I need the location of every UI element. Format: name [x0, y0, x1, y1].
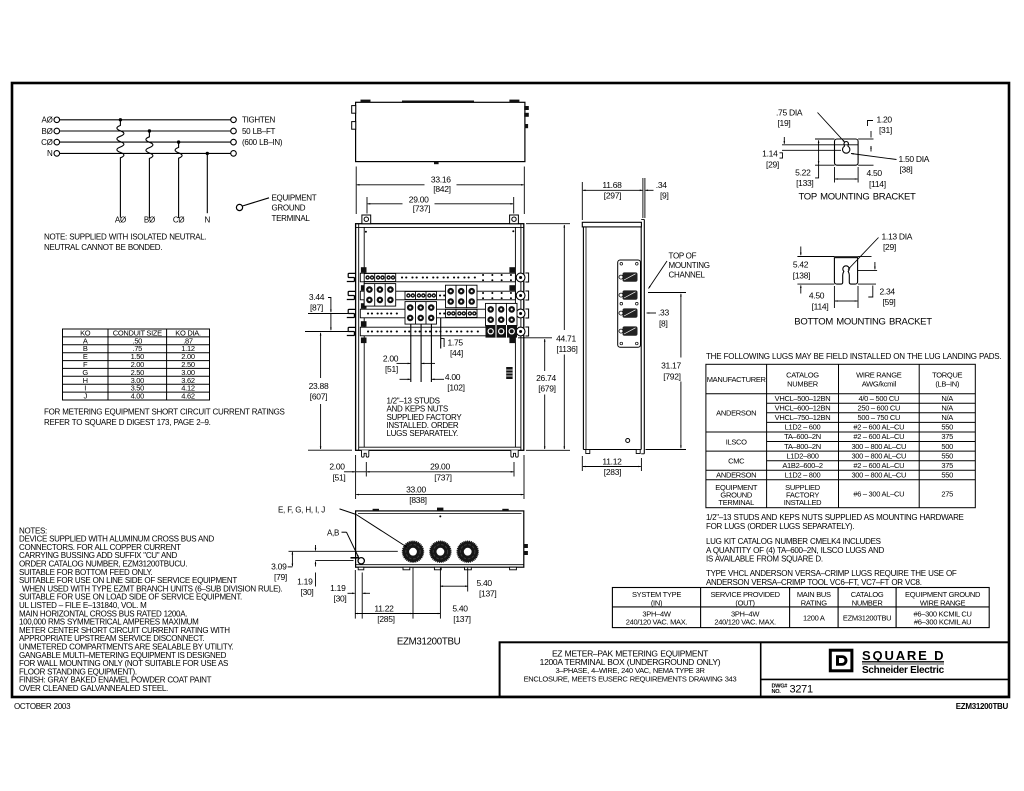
bus end bolts right	[509, 267, 515, 273]
svg-text:4/0 – 500 CU: 4/0 – 500 CU	[858, 394, 899, 403]
svg-text:AØ: AØ	[115, 216, 126, 225]
svg-text:Schneider Electric: Schneider Electric	[862, 665, 945, 676]
svg-text:IS AVAILABLE FROM SQUARE D: IS AVAILABLE FROM SQUARE D.	[706, 554, 823, 563]
lug group B	[405, 302, 437, 325]
dim .34	[645, 189, 653, 191]
lug group right	[486, 303, 518, 326]
lug table	[706, 364, 975, 507]
svg-text:LUG KIT CATALOG NUMBER CME: LUG KIT CATALOG NUMBER CMELK4 INCLUDES	[706, 537, 881, 546]
screw dots	[365, 231, 367, 233]
svg-text:1.19: 1.19	[330, 583, 346, 593]
lug group mid	[446, 285, 478, 308]
svg-text:2.34: 2.34	[880, 287, 896, 297]
svg-text:.75 DIA: .75 DIA	[776, 108, 803, 118]
svg-text:CATALOG: CATALOG	[786, 370, 819, 379]
left foot	[362, 450, 369, 457]
dim 11.12 extensions	[581, 456, 583, 471]
svg-text:WIRE RANGE: WIRE RANGE	[856, 370, 902, 379]
svg-text:N/A: N/A	[941, 413, 953, 422]
terminal circle N right	[231, 151, 237, 157]
top view right clips	[524, 106, 529, 110]
dim 5.42	[800, 247, 802, 256]
terminal circle C right	[231, 139, 237, 145]
bottom dim extension lines	[355, 455, 357, 499]
lug strip mid	[446, 309, 478, 317]
wall clips left	[347, 273, 356, 281]
svg-text:[133]: [133]	[796, 178, 813, 188]
svg-text:ENCLOSURE, MEETS EUSERC REQ: ENCLOSURE, MEETS EUSERC REQUIREMENTS DRA…	[524, 674, 737, 683]
dim 29.00 top	[368, 203, 403, 205]
svg-text:2.00: 2.00	[329, 462, 345, 472]
svg-text:550: 550	[941, 451, 953, 460]
svg-text:BØ: BØ	[42, 127, 53, 136]
title block	[500, 642, 1009, 696]
equipment ground terminal circle	[236, 204, 242, 210]
svg-text:MANUFACTURER: MANUFACTURER	[707, 375, 767, 384]
bus row C	[360, 309, 515, 318]
svg-text:[607]: [607]	[310, 392, 327, 402]
neutral dark lug strip	[486, 325, 518, 338]
svg-text:(600 LB–IN): (600 LB–IN)	[242, 138, 283, 147]
dim 23.88 left	[320, 333, 322, 378]
svg-text:WIRE RANGE: WIRE RANGE	[920, 598, 966, 607]
svg-text:4.50: 4.50	[867, 168, 883, 178]
svg-text:[79]: [79]	[274, 572, 287, 582]
svg-text:[19]: [19]	[778, 118, 791, 128]
top view left bracket tab	[361, 100, 371, 103]
dim 1.19 second	[348, 592, 355, 594]
svg-text:BØ: BØ	[144, 216, 155, 225]
svg-text:[38]: [38]	[900, 164, 913, 174]
svg-text:[838]: [838]	[409, 495, 426, 505]
svg-text:3271: 3271	[790, 684, 813, 696]
bottom view center tab	[437, 508, 443, 511]
svg-text:[792]: [792]	[663, 371, 680, 381]
dim 5.40 upper	[440, 585, 467, 587]
svg-text:300 – 800 AL–CU: 300 – 800 AL–CU	[851, 451, 906, 460]
svg-text:J: J	[83, 392, 87, 401]
bus row A	[360, 273, 515, 282]
svg-text:EZM31200TBU: EZM31200TBU	[956, 702, 1009, 711]
svg-text:11.12: 11.12	[602, 456, 622, 466]
svg-text:INSTALLED: INSTALLED	[784, 498, 822, 507]
lug table header	[707, 370, 963, 388]
svg-text:[31]: [31]	[879, 125, 892, 135]
svg-text:5.22: 5.22	[795, 167, 811, 177]
svg-text:#2 – 600 AL–CU: #2 – 600 AL–CU	[853, 432, 904, 441]
svg-text:550: 550	[941, 471, 953, 480]
svg-text:TA–600–2N: TA–600–2N	[784, 432, 821, 441]
svg-text:550: 550	[941, 423, 953, 432]
wire phase B	[60, 130, 231, 132]
svg-text:[297]: [297]	[604, 190, 621, 200]
svg-text:[8]: [8]	[659, 318, 668, 328]
svg-text:NEUTRAL CANNOT BE BONDED.: NEUTRAL CANNOT BE BONDED.	[44, 243, 162, 252]
svg-text:L1D2 – 800: L1D2 – 800	[785, 471, 821, 480]
svg-text:1.20: 1.20	[877, 115, 893, 125]
svg-text:50 LB–FT: 50 LB–FT	[242, 127, 276, 136]
bus end bolts left	[361, 267, 367, 273]
dim 1.14	[783, 137, 785, 144]
label 1.50 DIA	[851, 154, 897, 160]
dim 2.00 studs	[397, 362, 411, 364]
mounting channel plate	[618, 260, 641, 347]
svg-text:500 – 750 CU: 500 – 750 CU	[857, 413, 900, 422]
svg-text:SQUARE D: SQUARE D	[862, 648, 944, 663]
svg-text:VHCL–500–12BN: VHCL–500–12BN	[775, 394, 831, 403]
svg-text:2.00: 2.00	[383, 353, 399, 363]
dim 29.00 bottom	[367, 471, 404, 473]
bottom bracket reference lines	[797, 256, 834, 258]
svg-text:N/A: N/A	[941, 394, 953, 403]
side feet	[586, 450, 590, 454]
svg-text:#6 – 300 AL–CU: #6 – 300 AL–CU	[853, 490, 904, 499]
top plan view of terminal box	[356, 102, 525, 161]
knockout E-J 2	[430, 541, 451, 562]
riser phase C	[175, 142, 182, 218]
svg-text:33.16: 33.16	[431, 174, 451, 184]
lug strip row A	[364, 274, 396, 282]
svg-text:REFER TO SQUARE D DIGEST: REFER TO SQUARE D DIGEST 173, PAGE 2–9.	[44, 418, 211, 427]
riser phase B	[146, 131, 153, 218]
svg-text:TOP MOUNTING BRACKET: TOP MOUNTING BRACKET	[798, 192, 916, 203]
svg-text:TERMINAL: TERMINAL	[718, 498, 754, 507]
svg-text:44.71: 44.71	[556, 333, 576, 343]
svg-text:1.75: 1.75	[448, 337, 464, 347]
svg-text:TOP OF: TOP OF	[669, 251, 697, 260]
svg-text:[737]: [737]	[413, 204, 430, 214]
lug notes	[706, 513, 964, 587]
svg-text:[102]: [102]	[447, 383, 464, 393]
svg-text:AØ: AØ	[42, 116, 53, 125]
svg-text:(LB–IN): (LB–IN)	[935, 379, 960, 388]
svg-text:300 – 800 AL–CU: 300 – 800 AL–CU	[851, 471, 906, 480]
lug strip row B	[405, 292, 437, 300]
svg-text:TYPE VHCL ANDERSON VERSA–CR: TYPE VHCL ANDERSON VERSA–CRIMP LUGS REQU…	[706, 569, 957, 578]
dim 1.75 bracket	[441, 339, 444, 347]
junction dot A	[119, 118, 122, 121]
svg-text:375: 375	[941, 432, 953, 441]
junction dot B	[148, 129, 151, 132]
front left mounting tab	[362, 215, 371, 224]
svg-text:4.50: 4.50	[809, 291, 825, 301]
dim 2.34	[874, 262, 876, 269]
interior label mark	[506, 367, 512, 379]
front right mounting tab	[510, 215, 519, 224]
dim 26.74 right	[518, 337, 552, 339]
svg-text:GROUND: GROUND	[272, 204, 306, 213]
top mounting bracket detail	[835, 139, 859, 165]
svg-text:LUGS SEPARATELY.: LUGS SEPARATELY.	[387, 429, 459, 438]
svg-text:240/120 VAC. MAX.: 240/120 VAC. MAX.	[626, 618, 688, 627]
svg-text:11.68: 11.68	[602, 180, 622, 190]
svg-text:ANDERSON: ANDERSON	[716, 409, 756, 418]
svg-text:1.14: 1.14	[762, 149, 778, 159]
svg-text:[137]: [137]	[479, 588, 496, 598]
dim 1.19 first	[315, 545, 317, 551]
phase schematic top-left	[54, 117, 236, 218]
top view bottom tick	[434, 162, 439, 165]
studs note	[387, 396, 463, 438]
svg-text:TA–800–2N: TA–800–2N	[784, 442, 821, 451]
svg-text:26.74: 26.74	[536, 373, 556, 383]
svg-text:1/2"–13 STUDS AND KEPS NUT: 1/2"–13 STUDS AND KEPS NUTS SUPPLIED AS …	[706, 513, 964, 522]
svg-text:(IN): (IN)	[651, 598, 663, 607]
riser phase A	[117, 120, 124, 218]
dim 1.20	[868, 121, 874, 127]
svg-text:VHCL–600–12BN: VHCL–600–12BN	[775, 404, 831, 413]
svg-text:[842]: [842]	[433, 184, 450, 194]
svg-text:[285]: [285]	[377, 614, 394, 624]
svg-text:31.17: 31.17	[661, 361, 681, 371]
svg-text:FOR LUGS (ORDER LUGS SEPAR: FOR LUGS (ORDER LUGS SEPARATELY).	[706, 522, 854, 531]
dim 11.22	[355, 613, 413, 615]
A,B tick	[351, 557, 360, 559]
svg-text:NOTE: SUPPLIED WITH ISOLATE: NOTE: SUPPLIED WITH ISOLATED NEUTRAL.	[44, 232, 206, 241]
dim 5.40 lower	[413, 613, 440, 615]
svg-text:5.42: 5.42	[793, 260, 809, 270]
svg-text:375: 375	[941, 461, 953, 470]
dim 31.17	[648, 292, 686, 294]
channel lug B	[619, 290, 638, 299]
terminal circle A left	[54, 117, 60, 123]
bottom bracket top plate	[834, 256, 858, 258]
svg-text:240/120 VAC. MAX.: 240/120 VAC. MAX.	[714, 618, 776, 627]
svg-text:#6–300 KCMIL AU: #6–300 KCMIL AU	[914, 618, 971, 627]
bottom mounting bracket detail	[834, 257, 857, 284]
svg-text:TERMINAL: TERMINAL	[272, 214, 311, 223]
Square D logo mark	[830, 650, 852, 671]
dim 3.09	[291, 552, 293, 566]
svg-text:L1D2 – 600: L1D2 – 600	[785, 423, 821, 432]
svg-text:[51]: [51]	[333, 472, 346, 482]
terminal circle A right	[231, 117, 237, 123]
svg-text:NO.: NO.	[772, 689, 782, 695]
svg-text:3.44: 3.44	[309, 292, 325, 302]
svg-text:[44]: [44]	[450, 348, 463, 358]
stud lines	[410, 324, 412, 382]
svg-text:BOTTOM MOUNTING BRACKET: BOTTOM MOUNTING BRACKET	[794, 317, 932, 328]
dim 4.00 studs	[400, 378, 411, 380]
dim .33	[647, 312, 656, 314]
svg-text:[29]: [29]	[883, 242, 896, 252]
svg-text:RATING: RATING	[801, 598, 827, 607]
side lug circles right	[516, 273, 525, 336]
bottom view top tabs	[373, 509, 379, 511]
svg-text:THE FOLLOWING LUGS MAY BE: THE FOLLOWING LUGS MAY BE FIELD INSTALLE…	[706, 352, 1001, 361]
terminal circle B right	[231, 128, 237, 134]
riser neutral	[206, 153, 208, 213]
svg-text:29.00: 29.00	[430, 462, 450, 472]
right foot	[511, 450, 518, 457]
svg-text:CHANNEL: CHANNEL	[669, 271, 706, 280]
dim 11.68 extensions	[581, 182, 583, 220]
svg-text:AWG/kcmil: AWG/kcmil	[862, 379, 897, 388]
terminal circle B left	[54, 128, 60, 134]
svg-text:11.22: 11.22	[374, 603, 394, 613]
AB center extension line	[315, 560, 353, 562]
svg-text:[30]: [30]	[334, 594, 347, 604]
svg-text:5.40: 5.40	[452, 603, 468, 613]
svg-text:[138]: [138]	[793, 270, 810, 280]
svg-text:TORQUE: TORQUE	[932, 370, 962, 379]
svg-text:.33: .33	[658, 308, 669, 318]
svg-text:23.88: 23.88	[309, 381, 329, 391]
svg-text:L1D2–800: L1D2–800	[786, 451, 818, 460]
svg-text:1.50 DIA: 1.50 DIA	[899, 154, 930, 164]
lug group A	[364, 284, 396, 307]
dim 2.00 bottom left	[344, 471, 355, 473]
svg-text:[29]: [29]	[766, 159, 779, 169]
dim 11.12	[583, 466, 641, 468]
center dot	[439, 515, 441, 517]
svg-text:[114]: [114]	[812, 301, 829, 311]
junction dot N	[206, 152, 209, 155]
side screw dot	[626, 439, 630, 443]
bottom extension lines	[354, 570, 356, 619]
svg-text:VHCL–750–12BN: VHCL–750–12BN	[775, 413, 831, 422]
svg-text:5.40: 5.40	[477, 578, 493, 588]
svg-text:3.09: 3.09	[271, 562, 287, 572]
svg-text:[51]: [51]	[385, 364, 398, 374]
svg-text:[114]: [114]	[869, 179, 886, 189]
svg-text:500: 500	[941, 442, 953, 451]
dim 44.71 right	[526, 223, 570, 225]
KO center extension line	[289, 550, 398, 552]
dim 11.68	[583, 189, 643, 191]
svg-text:E, F, G, H, I, J: E, F, G, H, I, J	[278, 506, 325, 515]
knockout E-J 1	[403, 541, 424, 562]
channel lug C	[619, 308, 638, 317]
svg-text:1.19: 1.19	[297, 577, 313, 587]
svg-text:OVER CLEANED GALVANNEALED S: OVER CLEANED GALVANNEALED STEEL.	[19, 684, 168, 693]
svg-text:[679]: [679]	[538, 384, 555, 394]
svg-text:[30]: [30]	[301, 587, 314, 597]
top bracket reference lines	[815, 138, 835, 140]
dim 33.00 bottom	[356, 494, 404, 496]
svg-text:[59]: [59]	[883, 297, 896, 307]
svg-text:NUMBER: NUMBER	[787, 379, 819, 388]
lug table body	[715, 394, 953, 507]
svg-text:ILSCO: ILSCO	[726, 437, 747, 446]
bus row N	[360, 327, 515, 336]
dim 5.22	[818, 140, 820, 164]
page border	[12, 83, 1009, 697]
svg-text:A,B: A,B	[327, 529, 339, 538]
top view right bracket tab	[509, 100, 519, 103]
svg-text:.34: .34	[656, 180, 667, 190]
svg-text:EZM31200TBU: EZM31200TBU	[843, 614, 891, 623]
svg-text:CØ: CØ	[173, 216, 184, 225]
dim 33.16 extension lines	[355, 167, 357, 215]
svg-text:CMC: CMC	[728, 456, 745, 465]
svg-text:N/A: N/A	[941, 404, 953, 413]
svg-text:4.62: 4.62	[181, 392, 195, 401]
svg-text:1200 A: 1200 A	[803, 614, 825, 623]
svg-text:EQUIPMENT: EQUIPMENT	[272, 193, 317, 202]
knockout size table	[63, 329, 210, 400]
dim 4.50 bottom bracket	[833, 286, 835, 308]
svg-text:#2 – 600 AL–CU: #2 – 600 AL–CU	[853, 423, 904, 432]
svg-text:4.00: 4.00	[445, 372, 461, 382]
svg-text:ANDERSON: ANDERSON	[716, 471, 756, 480]
svg-text:33.00: 33.00	[406, 484, 426, 494]
terminal circle N left	[54, 151, 60, 157]
channel lug A	[619, 272, 638, 281]
side elevation enclosure	[582, 220, 644, 454]
knockout E-J 3	[457, 541, 478, 562]
equipment ground terminal leader	[243, 198, 270, 206]
svg-text:1.13 DIA: 1.13 DIA	[882, 232, 913, 242]
svg-text:4.00: 4.00	[131, 392, 145, 401]
svg-text:N: N	[205, 216, 211, 225]
svg-text:NUMBER: NUMBER	[852, 598, 884, 607]
top view mounting channel strip	[402, 101, 474, 103]
svg-text:(OUT): (OUT)	[735, 598, 755, 607]
svg-text:CØ: CØ	[41, 138, 52, 147]
svg-text:A1B2–600–2: A1B2–600–2	[782, 461, 823, 470]
knockout A,B	[358, 558, 364, 564]
top view left hinge bumps	[352, 106, 356, 114]
svg-text:EZM31200TBU: EZM31200TBU	[397, 637, 461, 648]
system rating table	[612, 588, 989, 628]
bottom view enclosure	[356, 511, 524, 567]
general notes list	[19, 526, 283, 693]
svg-text:[737]: [737]	[434, 472, 451, 482]
dim 4.50 top bracket	[834, 167, 836, 183]
wire phase C	[60, 141, 231, 143]
svg-text:300 – 800 AL–CU: 300 – 800 AL–CU	[851, 442, 906, 451]
dim 29.00 extension lines	[366, 197, 368, 214]
svg-text:[1136]: [1136]	[556, 344, 577, 354]
terminal circle C left	[54, 139, 60, 145]
wire phase A	[60, 119, 231, 121]
right edge clips	[524, 544, 528, 548]
svg-text:TIGHTEN: TIGHTEN	[242, 116, 276, 125]
wire neutral	[60, 152, 231, 154]
svg-text:#2 – 600 AL–CU: #2 – 600 AL–CU	[853, 461, 904, 470]
channel lug N	[619, 326, 638, 335]
svg-text:275: 275	[941, 490, 953, 499]
dim 3.44 left	[308, 313, 348, 315]
dim 33.16	[357, 184, 425, 186]
svg-text:OCTOBER 2003: OCTOBER 2003	[14, 702, 71, 711]
svg-text:ANDERSON VERSA–CRIMP TOOL V: ANDERSON VERSA–CRIMP TOOL VC6–FT, VC7–FT…	[706, 578, 922, 587]
junction dot C	[177, 140, 180, 143]
bus row B	[360, 291, 515, 300]
svg-text:[283]: [283]	[604, 467, 621, 477]
svg-text:[87]: [87]	[310, 302, 323, 312]
svg-text:[9]: [9]	[660, 191, 669, 201]
svg-text:N: N	[47, 149, 53, 158]
front elevation enclosure	[356, 224, 524, 451]
svg-text:MOUNTING: MOUNTING	[669, 261, 710, 270]
bottom feet tabs	[403, 567, 410, 570]
svg-text:FOR METERING EQUIPMENT SHOR: FOR METERING EQUIPMENT SHORT CIRCUIT CUR…	[44, 407, 285, 416]
svg-text:[137]: [137]	[453, 614, 470, 624]
svg-text:250 – 600 CU: 250 – 600 CU	[857, 404, 900, 413]
